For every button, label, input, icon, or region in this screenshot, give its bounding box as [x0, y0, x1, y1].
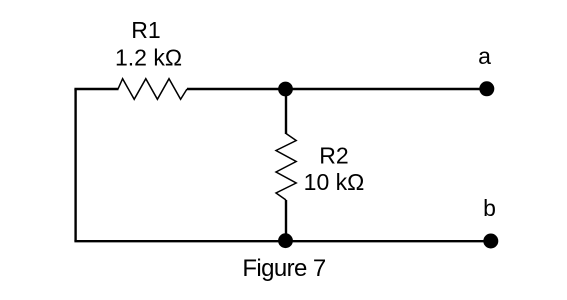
svg-text:R2: R2: [319, 143, 348, 169]
wire: top horizontal from left corner to resistor R1: [74, 88, 118, 90]
resistor R1: [118, 79, 187, 100]
svg-text:a: a: [478, 43, 491, 69]
svg-text:Figure 7: Figure 7: [242, 255, 325, 282]
wire: left vertical side from top-left corner to bottom-left corner: [74, 89, 76, 241]
wire: bottom horizontal from left corner to terminal b: [74, 240, 490, 242]
wire: vertical from R2 down to bottom node: [285, 200, 287, 241]
svg-text:b: b: [483, 195, 496, 221]
wire: vertical from top node down to R2: [285, 89, 287, 134]
terminal b dot: [483, 234, 498, 249]
svg-text:R1: R1: [131, 17, 160, 43]
node junction dot (bottom, R2 return): [278, 233, 293, 248]
svg-text:10 kΩ: 10 kΩ: [304, 169, 365, 195]
node junction dot (top, R2 tap): [278, 82, 293, 97]
svg-text:1.2 kΩ: 1.2 kΩ: [115, 45, 182, 71]
wire: top horizontal from R1 to terminal a: [187, 88, 486, 90]
terminal a dot: [479, 81, 494, 96]
resistor R2: [276, 134, 296, 201]
